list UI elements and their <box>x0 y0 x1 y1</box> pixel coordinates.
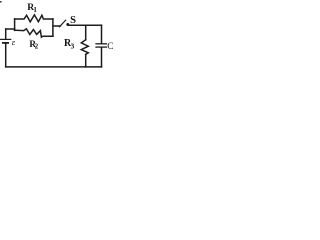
wire switch to top-right corner <box>69 24 102 26</box>
battery EMF long plate (+) <box>1 38 11 40</box>
scan artifact dot top-left <box>0 1 2 3</box>
bottom wire <box>6 66 102 68</box>
battery EMF short plate (-) <box>3 42 8 44</box>
svg-text:C: C <box>107 42 113 52</box>
wire top of R3 branch <box>85 25 87 39</box>
node B right vertical of parallel box <box>52 19 54 36</box>
capacitor C top plate <box>96 43 106 45</box>
wire top-right corner down to capacitor <box>101 25 103 43</box>
svg-text:S: S <box>70 15 76 26</box>
switch S pivot contact dot <box>66 23 69 26</box>
switch S blade (open) <box>60 20 66 27</box>
resistor R2 (sloping branch) <box>15 29 53 37</box>
wire left side bottom (battery to bottom wire) <box>5 44 7 67</box>
wire node B to switch <box>53 25 60 27</box>
capacitor C bottom plate <box>96 46 106 48</box>
svg-text:1: 1 <box>33 6 37 14</box>
wire capacitor to bottom-right corner <box>101 48 103 67</box>
resistor R1 <box>15 15 53 22</box>
svg-text:3: 3 <box>71 42 75 50</box>
resistor R3 (vertical) <box>81 40 88 55</box>
wire battery to left node <box>6 28 15 30</box>
wire left side top (battery to wire) <box>5 29 7 39</box>
node A left vertical of parallel box <box>14 19 16 31</box>
wire bottom of R3 branch <box>85 54 87 67</box>
svg-text:ε: ε <box>12 37 16 47</box>
svg-text:2: 2 <box>35 44 39 51</box>
